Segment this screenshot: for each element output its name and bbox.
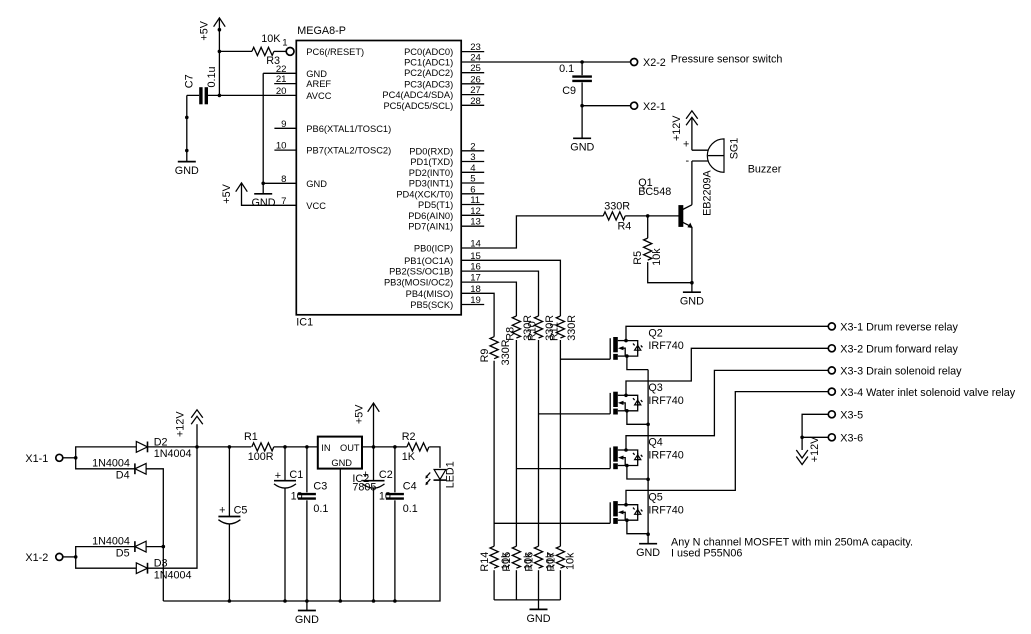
wire VCC pin 7 to +5V bbox=[242, 183, 297, 205]
svg-text:PB7(XTAL2/TOSC2): PB7(XTAL2/TOSC2) bbox=[306, 146, 391, 156]
svg-text:10: 10 bbox=[379, 491, 391, 503]
svg-text:GND: GND bbox=[680, 296, 704, 308]
junction X1-2 bbox=[74, 555, 78, 559]
svg-text:R5: R5 bbox=[632, 251, 644, 265]
power +5V supply arrow (top left) bbox=[214, 18, 226, 52]
svg-text:R14: R14 bbox=[479, 552, 491, 572]
svg-text:MEGA8-P: MEGA8-P bbox=[297, 25, 346, 37]
resistor R2 1K bbox=[407, 443, 429, 451]
svg-text:IRF740: IRF740 bbox=[648, 340, 683, 352]
power +12V supply arrow (pointing down) at X3 bbox=[796, 437, 808, 464]
wire pulldown ground rail bbox=[494, 599, 560, 601]
svg-text:+: + bbox=[275, 470, 281, 482]
svg-text:PB0(ICP): PB0(ICP) bbox=[414, 244, 453, 254]
diode D2 1N4004 bbox=[136, 442, 147, 453]
wire Q2 source to common rail bbox=[627, 356, 648, 370]
svg-text:10k: 10k bbox=[565, 552, 577, 570]
wire R2 to LED1 bbox=[429, 447, 440, 468]
svg-text:PD2(INT0): PD2(INT0) bbox=[409, 168, 453, 178]
svg-text:PC0(ADC0): PC0(ADC0) bbox=[404, 47, 453, 57]
svg-text:X2-1: X2-1 bbox=[643, 101, 666, 113]
svg-text:0.1: 0.1 bbox=[559, 63, 574, 75]
svg-text:C4: C4 bbox=[403, 480, 417, 492]
wire R3 left lead bbox=[219, 50, 252, 52]
svg-text:PC2(ADC2): PC2(ADC2) bbox=[404, 68, 453, 78]
power +12V supply arrow at buzzer bbox=[686, 111, 698, 150]
svg-text:LED1: LED1 bbox=[445, 461, 457, 488]
transistor Q5 IRF740 N-MOSFET bbox=[610, 501, 642, 524]
ground GND at IC pins 8/22 bbox=[262, 183, 264, 194]
wire 7805 GND to rail bbox=[339, 469, 341, 601]
junction X2-1 bbox=[580, 104, 584, 108]
wire C7 left plate to ground drop bbox=[187, 95, 199, 152]
junction AVCC / +5V bbox=[218, 94, 222, 98]
wire LED1 cathode down to rail bbox=[163, 479, 440, 601]
op-amp — IC1 MEGA8-P microcontroller body bbox=[296, 41, 461, 315]
svg-text:Q5: Q5 bbox=[648, 491, 662, 503]
svg-text:IC1: IC1 bbox=[296, 317, 313, 329]
junction C4 bbox=[393, 445, 397, 449]
wire Q3 gate bbox=[539, 413, 611, 415]
resistor R15 10k pulldown bbox=[512, 546, 520, 568]
transistor Q3 IRF740 N-MOSFET bbox=[610, 392, 642, 415]
junction D5 anode bbox=[162, 545, 166, 549]
junction C9 top bbox=[580, 60, 584, 64]
svg-text:GND: GND bbox=[252, 197, 276, 209]
svg-text:+5V: +5V bbox=[354, 404, 366, 424]
svg-text:C1: C1 bbox=[289, 469, 303, 481]
LED LED1 bbox=[425, 470, 446, 486]
terminal X3-2 bbox=[828, 345, 835, 352]
wire 7805 OUT to R2 bbox=[362, 446, 407, 448]
svg-text:IN: IN bbox=[321, 443, 330, 453]
svg-text:0.1: 0.1 bbox=[403, 503, 418, 515]
svg-text:1N4004: 1N4004 bbox=[154, 448, 192, 460]
wire IC pin to R11 top bbox=[461, 260, 560, 316]
svg-text:R17: R17 bbox=[545, 552, 557, 572]
junction C5 bottom bbox=[228, 599, 232, 603]
svg-text:PC1(ADC1): PC1(ADC1) bbox=[404, 58, 453, 68]
wire R14 bottom to ground rail bbox=[493, 570, 495, 600]
resistor R17 10k pulldown bbox=[556, 546, 564, 568]
wire X1-2 up to D5 cathode bbox=[76, 547, 135, 557]
svg-text:330R: 330R bbox=[604, 201, 630, 213]
svg-text:PD4(XCK/T0): PD4(XCK/T0) bbox=[396, 189, 453, 199]
capacitor C2 10u electrolytic bbox=[363, 447, 385, 601]
wire common source rail bbox=[647, 370, 649, 535]
capacitor C7 0.1u (series plates) bbox=[199, 87, 202, 104]
svg-text:AREF: AREF bbox=[306, 79, 331, 89]
buzzer SG1 symbol bbox=[692, 139, 724, 172]
svg-text:PC5(ADC5/SCL): PC5(ADC5/SCL) bbox=[383, 101, 453, 111]
svg-text:R8: R8 bbox=[505, 327, 517, 341]
wire Q5 drain to connector bbox=[626, 392, 829, 505]
svg-text:BC548: BC548 bbox=[638, 186, 671, 198]
svg-text:PC6(/RESET): PC6(/RESET) bbox=[306, 47, 364, 57]
diode D4 1N4004 bbox=[135, 463, 146, 474]
junction Q3 source bbox=[646, 423, 650, 427]
wire D2 cathode to +12V rail bbox=[147, 446, 251, 448]
ground GND below Q1 bbox=[691, 283, 693, 293]
svg-text:0.1u: 0.1u bbox=[206, 66, 218, 87]
wire C9 top lead bbox=[581, 62, 583, 75]
junction on +5V stem bbox=[218, 28, 222, 32]
svg-text:R2: R2 bbox=[402, 431, 416, 443]
svg-text:+: + bbox=[219, 504, 225, 516]
wire C9 bottom to X2-1 and GND bbox=[581, 82, 583, 138]
capacitor C1 10u electrolytic bbox=[274, 447, 296, 601]
wire X1-1 to bridge bbox=[63, 457, 76, 459]
junction dot above GND bbox=[185, 149, 189, 153]
resistor R10 330R gate resistor bbox=[534, 316, 542, 338]
capacitor C3 0.1 bbox=[298, 447, 316, 601]
junction emitter / R5 bbox=[690, 281, 694, 285]
wire R16 bottom to ground rail bbox=[538, 570, 540, 600]
wire X3-6 to +12V bbox=[802, 436, 828, 438]
resistor R9 330R gate resistor bbox=[490, 337, 498, 359]
svg-text:R9: R9 bbox=[479, 349, 491, 363]
svg-text:R10: R10 bbox=[527, 321, 539, 341]
svg-text:PB3(MOSI/OC2): PB3(MOSI/OC2) bbox=[384, 278, 453, 288]
svg-text:SG1: SG1 bbox=[728, 138, 740, 160]
svg-text:D5: D5 bbox=[116, 547, 130, 559]
svg-text:X1-2: X1-2 bbox=[25, 552, 48, 564]
terminal X3-3 bbox=[828, 367, 835, 374]
svg-text:10k: 10k bbox=[651, 248, 663, 266]
svg-text:C2: C2 bbox=[379, 469, 393, 481]
resistor R1 100R bbox=[252, 443, 274, 451]
wire D3 cathode up to +12V rail bbox=[147, 447, 197, 568]
svg-text:OUT: OUT bbox=[340, 443, 360, 453]
wire pin 22 GND bus down to pin 8 bbox=[262, 73, 264, 183]
svg-text:X3-3 Drain solenoid relay: X3-3 Drain solenoid relay bbox=[840, 366, 962, 378]
svg-text:PD0(RXD): PD0(RXD) bbox=[409, 146, 453, 156]
svg-text:EB2209A: EB2209A bbox=[702, 169, 714, 215]
resistor R11 330R gate resistor bbox=[556, 316, 564, 338]
terminal X3-5 bbox=[828, 411, 835, 418]
wire Q4 gate bbox=[516, 468, 610, 470]
wire Q5 source to common rail bbox=[627, 520, 648, 534]
svg-text:R1: R1 bbox=[244, 431, 258, 443]
wire D5 anode junction bbox=[146, 546, 163, 548]
svg-text:IRF740: IRF740 bbox=[648, 450, 683, 462]
svg-text:10: 10 bbox=[291, 491, 303, 503]
pin 1 circle at PC6(/RESET) bbox=[286, 48, 294, 56]
capacitor C9 0.1 bbox=[572, 75, 592, 77]
svg-text:AVCC: AVCC bbox=[306, 91, 331, 101]
svg-text:GND: GND bbox=[331, 458, 352, 468]
svg-text:R16: R16 bbox=[523, 552, 535, 572]
junction +5V / R3 wire bbox=[218, 50, 222, 54]
svg-text:GND: GND bbox=[295, 614, 319, 626]
svg-text:PB2(SS/OC1B): PB2(SS/OC1B) bbox=[389, 267, 453, 277]
wire to X2-1 terminal bbox=[582, 105, 631, 107]
transistor Q1 BC548 NPN bbox=[678, 205, 692, 228]
wire Q3 drain to connector bbox=[626, 348, 829, 395]
ground GND below pulldowns bbox=[538, 600, 540, 610]
svg-text:X3-1 Drum reverse relay: X3-1 Drum reverse relay bbox=[840, 322, 958, 334]
svg-text:GND: GND bbox=[175, 165, 199, 177]
svg-text:Pressure sensor switch: Pressure sensor switch bbox=[671, 54, 783, 66]
resistor R5 10k base pulldown bbox=[644, 216, 692, 283]
terminal X3-1 bbox=[828, 323, 835, 330]
terminal X1-2 bbox=[56, 553, 63, 560]
svg-text:10K: 10K bbox=[261, 33, 281, 45]
svg-text:PB1(OC1A): PB1(OC1A) bbox=[404, 256, 453, 266]
svg-text:X1-1: X1-1 bbox=[25, 453, 48, 465]
svg-text:1N4004: 1N4004 bbox=[92, 535, 130, 547]
svg-text:+5V: +5V bbox=[221, 183, 233, 203]
svg-text:GND: GND bbox=[527, 613, 551, 625]
wire R15 bottom to ground rail bbox=[515, 570, 517, 600]
ground GND for MOSFET sources bbox=[647, 534, 649, 544]
junction X1-1 bbox=[74, 456, 78, 460]
svg-text:PD7(AIN1): PD7(AIN1) bbox=[408, 222, 453, 232]
power +5V supply arrow at VCC bbox=[236, 183, 248, 192]
svg-text:IRF740: IRF740 bbox=[648, 395, 683, 407]
svg-text:1K: 1K bbox=[402, 451, 416, 463]
junction Q5 source bbox=[646, 532, 650, 536]
junction R4 / R5 / base bbox=[646, 214, 650, 218]
svg-text:PB4(MISO): PB4(MISO) bbox=[406, 289, 454, 299]
svg-text:I used P55N06: I used P55N06 bbox=[671, 548, 742, 560]
wire +5V vertical to AVCC line bbox=[218, 51, 220, 95]
wire PB0 pin 14 to R4 bbox=[461, 216, 603, 248]
wire X1-1 down to D4 row bbox=[76, 458, 135, 469]
power +12V supply arrow PSU bbox=[191, 410, 203, 447]
resistor R3 10K pull-up bbox=[252, 47, 274, 55]
svg-text:GND: GND bbox=[306, 69, 327, 79]
svg-text:GND: GND bbox=[636, 547, 660, 559]
junction +5V / C2 bbox=[372, 445, 376, 449]
junction C2 bottom bbox=[372, 599, 376, 603]
wire R1 to 7805 IN bbox=[274, 446, 318, 448]
diode D3 1N4004 bbox=[136, 563, 147, 574]
wire D4 anode to D5 anode bbox=[146, 469, 163, 601]
ground GND below C7 bbox=[186, 152, 188, 162]
svg-text:PB5(SCK): PB5(SCK) bbox=[410, 300, 453, 310]
svg-text:+12V: +12V bbox=[175, 411, 187, 437]
junction C4 bottom bbox=[393, 599, 397, 603]
svg-text:X3-4 Water inlet solenoid valv: X3-4 Water inlet solenoid valve relay bbox=[840, 387, 1015, 399]
svg-text:PD1(TXD): PD1(TXD) bbox=[410, 157, 453, 167]
svg-text:PC3(ADC3): PC3(ADC3) bbox=[404, 79, 453, 89]
svg-text:1N4004: 1N4004 bbox=[92, 458, 130, 470]
wire R9 bottom down to gate row and 10k bbox=[493, 361, 495, 547]
svg-text:R15: R15 bbox=[501, 552, 513, 572]
power +5V supply arrow PSU bbox=[368, 403, 380, 447]
junction C1 bottom bbox=[283, 599, 287, 603]
junction pin 8 GND bbox=[261, 182, 265, 186]
wire Q5 gate bbox=[494, 522, 610, 524]
svg-text:Q2: Q2 bbox=[648, 327, 662, 339]
svg-text:C3: C3 bbox=[313, 480, 327, 492]
svg-text:R3: R3 bbox=[266, 55, 280, 67]
wire IC pin to R10 top bbox=[461, 271, 538, 316]
resistor R16 10k pulldown bbox=[534, 546, 542, 568]
svg-text:X3-5: X3-5 bbox=[840, 410, 863, 422]
wire R17 bottom to ground rail bbox=[559, 570, 561, 600]
svg-text:+5V: +5V bbox=[199, 20, 211, 40]
wire AVCC line from C7 to IC pin 20 bbox=[208, 94, 296, 96]
transistor Q4 IRF740 N-MOSFET bbox=[610, 446, 642, 469]
terminal X3-6 bbox=[828, 434, 835, 441]
svg-text:C5: C5 bbox=[234, 504, 248, 516]
svg-text:+12V: +12V bbox=[809, 436, 821, 462]
svg-text:R4: R4 bbox=[618, 221, 632, 233]
wire X1-2 to bridge bbox=[63, 556, 76, 558]
svg-text:0.1: 0.1 bbox=[313, 503, 328, 515]
terminal X2-1 bbox=[631, 102, 638, 109]
diode D5 1N4004 bbox=[135, 541, 146, 552]
wire PC1 pin 24 to pressure sensor switch X2-2 bbox=[461, 61, 631, 63]
svg-text:PD3(INT1): PD3(INT1) bbox=[409, 179, 453, 189]
transistor Q2 IRF740 N-MOSFET bbox=[610, 337, 642, 360]
ground GND below C9 bbox=[573, 137, 591, 139]
junction Q4 source bbox=[646, 478, 650, 482]
svg-text:-: - bbox=[685, 155, 689, 167]
junction dot on C7 ground drop bbox=[185, 116, 189, 120]
resistor R4 330R bbox=[603, 212, 625, 220]
ground GND PSU rail bbox=[306, 601, 308, 611]
wire IC pin to R8 top bbox=[461, 282, 516, 316]
svg-text:PB6(XTAL1/TOSC1): PB6(XTAL1/TOSC1) bbox=[306, 124, 391, 134]
svg-text:+: + bbox=[362, 469, 368, 481]
terminal X2-2 bbox=[631, 59, 638, 66]
svg-text:R11: R11 bbox=[549, 322, 561, 341]
junction C3 top bbox=[305, 445, 309, 449]
wire R11 bottom down to gate row and 10k bbox=[559, 340, 561, 546]
wire Q4 source to common rail bbox=[627, 466, 648, 480]
capacitor C4 0.1 bbox=[386, 447, 404, 601]
svg-text:X3-6: X3-6 bbox=[840, 433, 863, 445]
junction C1 top bbox=[283, 445, 287, 449]
svg-text:1N4004: 1N4004 bbox=[154, 570, 192, 582]
wire Q1 emitter to GND bbox=[691, 227, 693, 283]
resistor R8 330R gate resistor bbox=[512, 316, 520, 338]
svg-text:C9: C9 bbox=[562, 85, 576, 97]
wire X3-5 to +12V bbox=[802, 414, 828, 437]
svg-text:Buzzer: Buzzer bbox=[748, 164, 782, 176]
svg-text:+12V: +12V bbox=[671, 115, 683, 141]
junction +12V arrow / D3 bbox=[195, 445, 199, 449]
svg-text:GND: GND bbox=[306, 179, 327, 189]
svg-text:Q3: Q3 bbox=[648, 382, 662, 394]
svg-text:PC4(ADC4/SDA): PC4(ADC4/SDA) bbox=[382, 90, 453, 100]
resistor R14 10k pulldown bbox=[490, 546, 498, 568]
wire Q4 drain to connector bbox=[626, 370, 829, 450]
svg-text:PD5(T1): PD5(T1) bbox=[418, 200, 453, 210]
svg-text:C7: C7 bbox=[184, 74, 196, 88]
svg-text:1: 1 bbox=[282, 38, 287, 49]
svg-text:D3: D3 bbox=[154, 557, 168, 569]
svg-text:100R: 100R bbox=[248, 451, 274, 463]
wire pin 8 stub bbox=[263, 182, 296, 184]
junction X3-5/X3-6 +12V bbox=[800, 436, 804, 440]
svg-text:D4: D4 bbox=[116, 470, 130, 482]
wire R8 bottom down to gate row and 10k bbox=[515, 340, 517, 546]
terminal X3-4 bbox=[828, 388, 835, 395]
wire X1-1 up to D2 anode bbox=[76, 447, 137, 458]
wire buzzer minus to Q1 collector bbox=[691, 161, 693, 205]
voltage regulator IC2 7805 bbox=[318, 437, 362, 469]
junction 7805 GND bbox=[339, 599, 343, 603]
terminal X1-1 bbox=[56, 454, 63, 461]
svg-text:VCC: VCC bbox=[306, 201, 326, 211]
wire Q2 drain to connector bbox=[626, 326, 829, 340]
capacitor C5 electrolytic bbox=[218, 447, 240, 601]
svg-text:X3-2 Drum forward relay: X3-2 Drum forward relay bbox=[840, 344, 958, 356]
wire X1-2 down to D3 anode bbox=[76, 557, 137, 568]
svg-text:+: + bbox=[683, 139, 689, 151]
wire Q3 source to common rail bbox=[627, 411, 648, 425]
wire Q2 gate bbox=[560, 358, 610, 360]
svg-text:PD6(AIN0): PD6(AIN0) bbox=[408, 211, 453, 221]
svg-text:X2-2: X2-2 bbox=[643, 57, 666, 69]
wire IC pin to R9 top bbox=[461, 293, 494, 336]
svg-text:330R: 330R bbox=[500, 339, 512, 365]
svg-text:GND: GND bbox=[570, 141, 594, 153]
wire R4 to Q1 base bbox=[625, 215, 679, 217]
svg-text:IRF740: IRF740 bbox=[648, 504, 683, 516]
junction C3 bottom / GND bbox=[305, 599, 309, 603]
svg-text:Q4: Q4 bbox=[648, 437, 662, 449]
junction C5 top bbox=[228, 445, 232, 449]
svg-text:330R: 330R bbox=[566, 315, 578, 341]
wire R10 bottom down to gate row and 10k bbox=[538, 340, 540, 546]
